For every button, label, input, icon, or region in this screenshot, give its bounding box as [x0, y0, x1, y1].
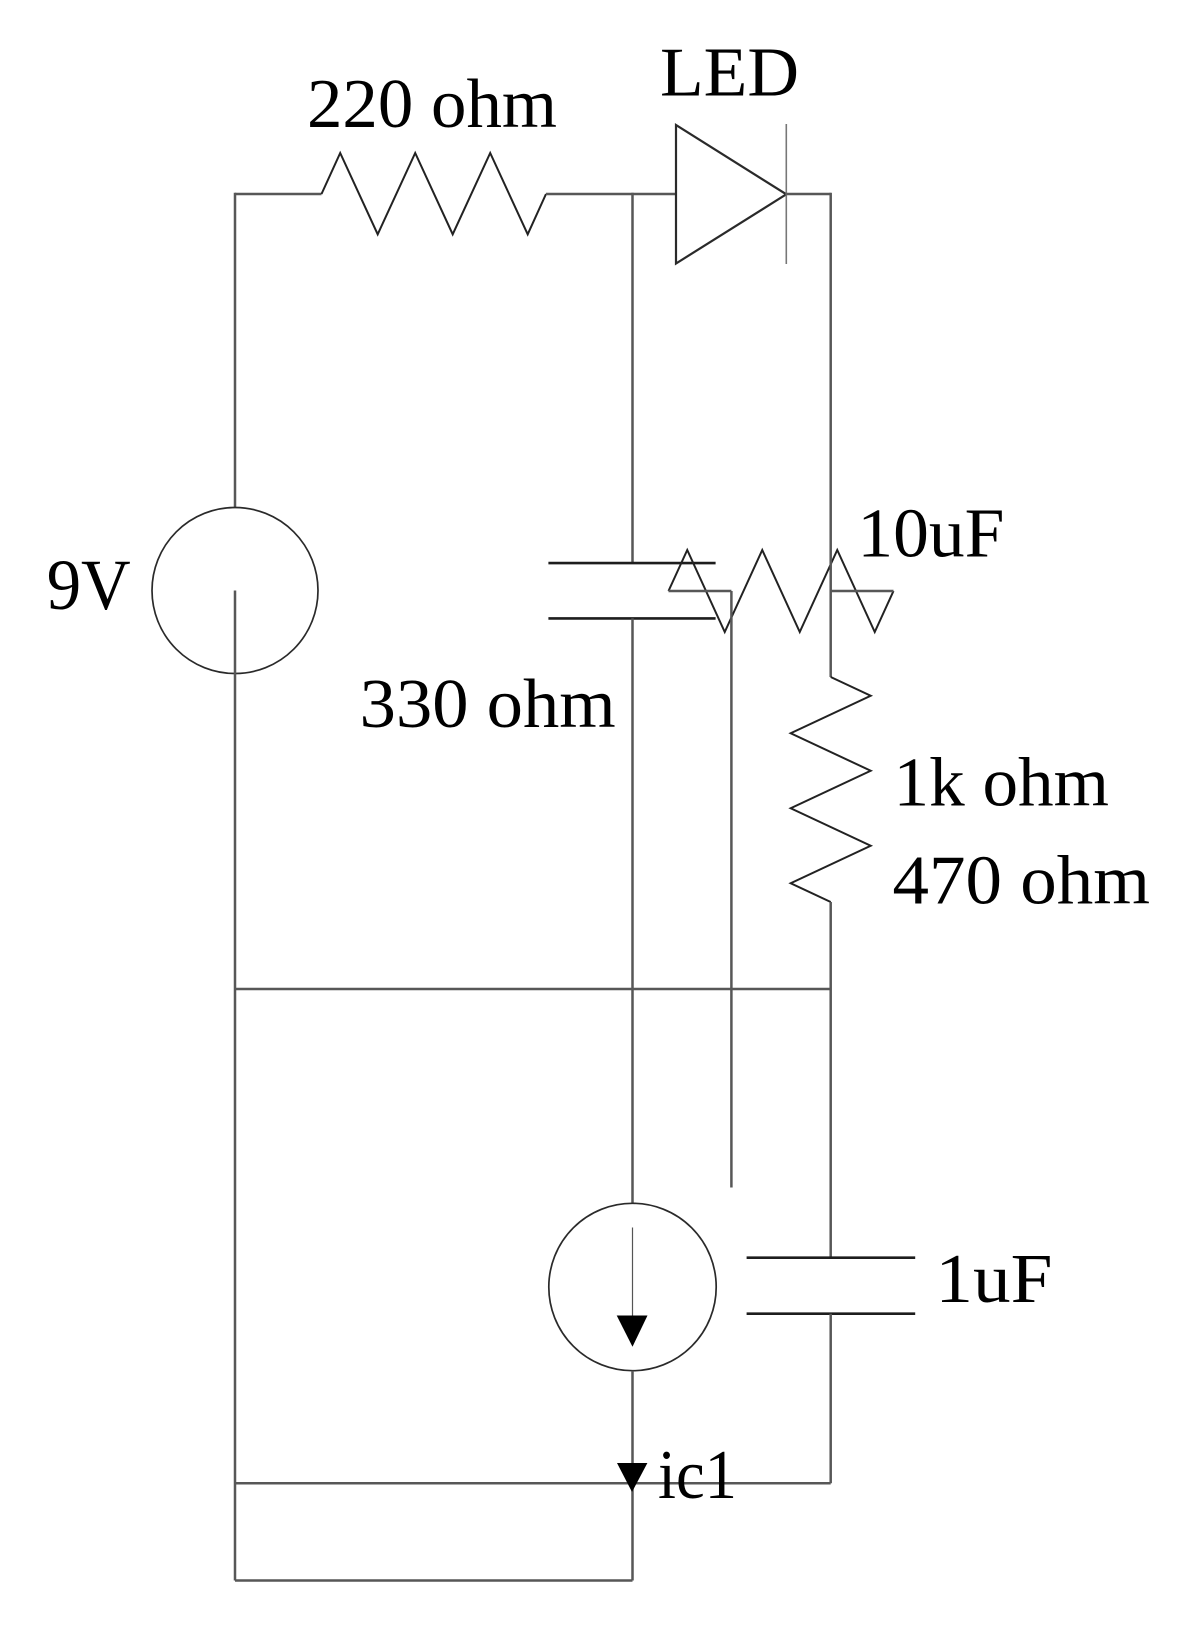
wire top-mid horizontal — [546, 193, 676, 196]
wire left vertical upper — [234, 193, 237, 508]
svg-text:1uF: 1uF — [935, 1241, 1052, 1318]
svg-text:220 ohm: 220 ohm — [307, 66, 557, 143]
resistor R1 220 ohm — [322, 153, 547, 234]
svg-text:9V: 9V — [47, 545, 131, 625]
svg-text:10uF: 10uF — [857, 496, 1004, 573]
svg-text:1k ohm: 1k ohm — [894, 744, 1110, 821]
wire floating vertical at x=731 — [730, 591, 733, 1188]
wire top-left horizontal — [235, 193, 322, 196]
wire right vertical mid — [829, 902, 832, 1258]
voltage source V1 circle — [152, 508, 318, 674]
wire mid vertical lower — [631, 1371, 634, 1581]
wire mid horizontal — [235, 988, 831, 991]
svg-text:ic1: ic1 — [658, 1437, 737, 1514]
wire mid vertical center section — [631, 618, 634, 1203]
current sink ic1 arrowhead — [617, 1463, 647, 1492]
svg-text:LED: LED — [660, 34, 799, 111]
capacitor C2 1uF bottom plate — [747, 1312, 916, 1315]
wire right vertical upper — [829, 193, 832, 677]
resistor R2 10uF horizontal — [669, 550, 894, 632]
diode LED triangle — [676, 125, 786, 264]
wire top-right horizontal — [786, 193, 830, 196]
current source I1 arrowhead — [617, 1316, 648, 1347]
capacitor C1 330 top plate — [548, 562, 715, 565]
wire resistor R2 left lead — [669, 590, 732, 593]
wire right vertical lower — [829, 1314, 832, 1484]
resistor R3 1k vertical — [791, 677, 871, 902]
wire left vertical lower from source center to bottom — [234, 591, 237, 1581]
capacitor C1 330 bottom plate — [548, 617, 715, 620]
svg-text:330 ohm: 330 ohm — [360, 666, 616, 743]
svg-text:470 ohm: 470 ohm — [893, 843, 1151, 920]
current source I1 arrow shaft — [632, 1228, 634, 1316]
wire mid vertical upper — [631, 193, 634, 563]
diode LED cathode bar — [785, 124, 787, 264]
wire resistor R2 right lead — [831, 590, 894, 593]
wire bottom horizontal upper — [235, 1482, 831, 1485]
wire bottom horizontal lower — [235, 1579, 633, 1582]
capacitor C2 1uF top plate — [747, 1256, 916, 1259]
current source I1 circle — [549, 1203, 716, 1370]
